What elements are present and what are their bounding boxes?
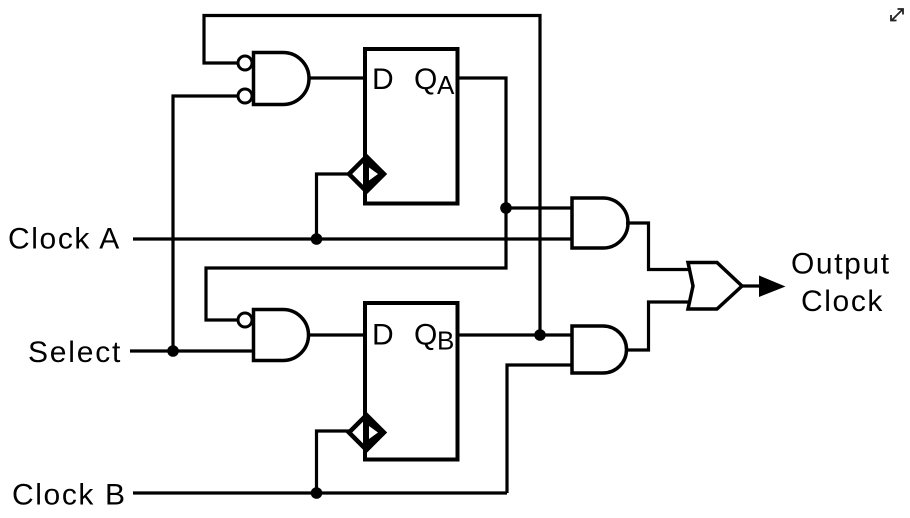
wire: G2 output to FFB D input bbox=[308, 333, 367, 336]
AND gate G3 bbox=[572, 198, 628, 248]
svg-text:D: D bbox=[372, 63, 394, 96]
svg-text:Q: Q bbox=[414, 319, 437, 352]
wire: G3 output to OR gate G5 top input bbox=[626, 223, 690, 270]
wire: Clock B riser to FFB clock diamond bbox=[317, 431, 351, 493]
D flip-flop FFA box bbox=[365, 49, 458, 204]
NAND-style gate G2 (AND body, inverted top input) bbox=[254, 310, 309, 361]
expand icon top-right bbox=[891, 9, 903, 21]
svg-text:Clock A: Clock A bbox=[8, 223, 121, 256]
svg-text:Output: Output bbox=[791, 248, 891, 281]
svg-text:B: B bbox=[437, 326, 454, 356]
wire: Select line bbox=[130, 349, 254, 352]
inversion bubble G2 top input bbox=[238, 313, 252, 327]
wire: QA to AND gate G3 top input bbox=[506, 206, 572, 209]
junction dot on Clock A line bbox=[311, 233, 323, 245]
NAND-style gate G1 (AND body, two inverted inputs) bbox=[254, 53, 310, 105]
clock diamond FFB bbox=[349, 415, 384, 450]
inversion bubble G1 top input bbox=[238, 56, 252, 70]
AND gate G4 bbox=[572, 326, 627, 373]
D flip-flop FFB box bbox=[365, 303, 458, 460]
wire: QA feedback to gate G2 top input bbox=[206, 208, 506, 320]
svg-text:Clock B: Clock B bbox=[12, 479, 127, 512]
junction dot on QB line at x=540 bbox=[534, 329, 546, 341]
wire: QB output to AND gate G4 top input bbox=[458, 333, 573, 336]
OR gate G5 bbox=[688, 263, 742, 310]
junction dot on Clock B line bbox=[311, 487, 323, 499]
wire: Select riser to gate G1 bottom input bbox=[173, 96, 238, 351]
inversion bubble G1 bottom input bbox=[238, 89, 252, 103]
svg-text:Clock: Clock bbox=[801, 285, 884, 318]
wire: Clock B riser to AND gate G4 bottom input bbox=[507, 365, 572, 493]
wire: G5 output bbox=[742, 284, 761, 287]
svg-text:D: D bbox=[372, 319, 394, 352]
output arrowhead bbox=[759, 276, 786, 298]
wire: QA output to junction bbox=[458, 78, 507, 208]
wire: Clock A riser to FFA clock diamond bbox=[317, 174, 351, 239]
wire: Clock A line bbox=[133, 237, 572, 240]
wire: Clock B line bbox=[133, 491, 507, 494]
svg-text:Select: Select bbox=[28, 336, 122, 369]
svg-text:Q: Q bbox=[414, 63, 437, 96]
wire: G1 output to FFA D input bbox=[308, 76, 367, 79]
svg-text:A: A bbox=[437, 70, 455, 100]
wire: QB feedback loop to gate G1 top input bbox=[204, 16, 540, 336]
clock diamond FFA bbox=[349, 157, 384, 192]
junction dot on Select line bbox=[167, 345, 179, 357]
junction dot on QA net bbox=[500, 202, 512, 214]
wire: G4 output to OR gate G5 bottom input bbox=[626, 302, 690, 350]
